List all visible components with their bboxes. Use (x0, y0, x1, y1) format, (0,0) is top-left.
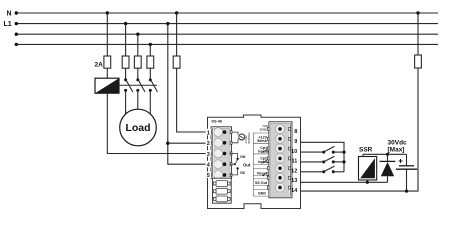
pushbutton glyph Cp2 (262, 159, 268, 163)
svg-text:N: N (7, 11, 12, 18)
wire K1 mechanical linkage (119, 84, 157, 86)
junction bus3 to fuse F3 (136, 33, 139, 36)
pin number 9 (294, 139, 297, 145)
terminal TB2 screw 10 (278, 147, 282, 151)
svg-text:[Max]: [Max] (388, 147, 405, 154)
junction battery to dc minus rail (405, 190, 408, 193)
svg-text:30Vdc: 30Vdc (388, 140, 408, 147)
terminal TB2 screw 8 (278, 127, 282, 131)
svg-text:no: no (240, 154, 246, 159)
ac supply wiring bracket (232, 132, 238, 143)
svg-text:12: 12 (291, 169, 297, 175)
battery B1 plus sign (399, 159, 403, 163)
relay label Out (243, 162, 251, 167)
svg-text:2A: 2A (95, 62, 104, 69)
terminal TB1 screw 2 (223, 141, 227, 145)
pin number 10 (291, 149, 297, 155)
pin number 12 (291, 169, 297, 175)
svg-text:nc: nc (240, 170, 246, 175)
pin number 1 (206, 129, 211, 137)
relay no contact dot (236, 158, 238, 160)
terminal block TB2 body (269, 122, 292, 198)
svg-text:14: 14 (291, 188, 298, 194)
SSR U2 (359, 157, 377, 181)
wire fuse F1 to coil K1 (106, 68, 108, 78)
svg-text:GND: GND (258, 192, 266, 196)
terminal block TB1 body (211, 127, 232, 180)
junction bus4 to fuse F4 (149, 43, 152, 46)
relay nc wiring to terminal 5 (230, 168, 237, 175)
terminal TB2 screw 11 (278, 157, 282, 161)
svg-text:1: 1 (207, 130, 210, 136)
pin number 4 (206, 161, 211, 169)
label cell SS Out (253, 179, 268, 185)
label cell Cp1 input (253, 144, 268, 155)
contact K1-1 (124, 78, 133, 92)
wire fuse F5 to terminal 1 (177, 68, 208, 132)
junction L1 to fuse F2 (124, 22, 127, 25)
junction N to fuse F5 (175, 11, 178, 14)
switch S3 on pin 12 (322, 166, 344, 173)
pin number 3 (206, 150, 211, 158)
diode D1 (380, 154, 396, 182)
fuse F2 (122, 56, 129, 68)
svg-text:5: 5 (207, 173, 210, 179)
switch S2 on pin 11 (322, 156, 344, 163)
node L1 label (4, 21, 12, 28)
switch S1 on pin 10 (322, 146, 344, 153)
pin number 8 (294, 129, 297, 135)
terminal TB1 pin tabs left (210, 131, 212, 177)
wire terminal 2 lead (168, 142, 208, 144)
terminal TB1 screw 5 (223, 173, 227, 177)
ac rating vertical text (244, 132, 251, 144)
wire N drop to fuse F5 (176, 13, 178, 56)
wire N bus line (15, 11, 438, 14)
terminal TB2 screw 14 (278, 186, 282, 190)
junction L1 to controller drop (166, 22, 169, 25)
svg-text:8: 8 (294, 129, 297, 135)
relay nc contact dot (236, 167, 238, 169)
svg-text:DS-48: DS-48 (212, 120, 222, 124)
junction N to fuse F1 (106, 11, 109, 14)
fuse F4 (147, 56, 154, 68)
junction N to fuse F6 (416, 11, 419, 14)
label cell GND (253, 190, 268, 197)
wire fuse F4 to contact K1-3 (149, 68, 151, 80)
svg-text:select: select (260, 127, 268, 131)
wire coil K1 bottom to terminal 3 (107, 93, 207, 153)
label SSR (359, 147, 373, 154)
terminal TB1 screw 3 (223, 152, 227, 156)
junction terminal 2 tap (166, 142, 169, 145)
wire L1 bus line (15, 22, 438, 25)
ac source symbol (239, 134, 245, 140)
pin number 5 (206, 172, 211, 180)
fuse F1 (104, 56, 111, 68)
terminal TB1 pin tabs right (230, 131, 232, 177)
wire contact K1-2 to load (137, 90, 139, 109)
wire phase bus line 3 (15, 33, 438, 36)
junction bus at pin 10 (342, 151, 345, 154)
wire contact K1-1 to load (125, 90, 127, 114)
svg-text:SS Out: SS Out (255, 181, 268, 185)
fuse F3 (134, 56, 141, 68)
junction SSR bottom (366, 181, 369, 184)
wire SSR top stub (362, 154, 364, 156)
relay label nc (240, 170, 246, 175)
label cell Cp2 input (253, 154, 268, 165)
pushbutton glyph Reset (262, 172, 268, 176)
svg-text:11: 11 (291, 159, 297, 165)
terminal TB2 pin tabs right (289, 127, 291, 189)
wire L1 drop to terminals 2 and 4 (168, 24, 208, 165)
relay contact wiring from terminal 3 (230, 154, 237, 158)
svg-text:50/60Hz: 50/60Hz (247, 132, 251, 144)
controller U1 DS-48 label (212, 120, 222, 124)
contact K1-3 (149, 78, 158, 92)
junction bus at pin 11 (342, 160, 345, 163)
wire pin 9 to pushbutton bus (301, 142, 345, 172)
svg-text:2: 2 (207, 141, 210, 147)
svg-text:13: 13 (291, 178, 297, 184)
wire pin 11 lead (301, 161, 323, 163)
wire contact K1-3 to load (149, 90, 151, 114)
terminal TB2 screw 13 (278, 176, 282, 180)
label strip side rails (253, 133, 268, 196)
relay label no (240, 154, 246, 159)
svg-text:50mA: 50mA (257, 139, 267, 143)
load M1 (120, 109, 157, 146)
controller U1 outline (208, 115, 301, 209)
svg-text:L1: L1 (4, 21, 12, 28)
label 30Vdc (388, 140, 408, 147)
wire pin 12 lead (301, 171, 323, 173)
wire pin 13 to dc bottom node (301, 181, 388, 183)
wire fuse F3 to contact K1-2 (137, 68, 139, 80)
label cell Reset (253, 168, 268, 176)
svg-text:Load: Load (125, 122, 150, 134)
wire SSR bottom stub (366, 180, 368, 182)
wire N drop to fuse F6 (417, 13, 419, 55)
wire L1 drop to fuse F2 (125, 24, 127, 56)
node N label (7, 11, 12, 18)
pin number 11 (291, 159, 297, 165)
label Max (388, 147, 405, 154)
contactor coil K1 (95, 78, 119, 93)
wire bus3 drop to fuse F3 (137, 34, 139, 56)
terminal TB1 screw 1 (223, 130, 227, 134)
pin number 13 (291, 178, 297, 184)
svg-text:SSR: SSR (359, 147, 373, 154)
wire N drop to fuse F1 (106, 13, 108, 56)
svg-text:3: 3 (207, 152, 210, 158)
label non select (260, 124, 269, 131)
pushbutton glyph Cp1 (262, 149, 268, 153)
fuse F6 (415, 55, 422, 68)
svg-text:Out: Out (243, 162, 251, 167)
wire fuse F6 to dc minus rail (301, 68, 419, 191)
relay common wiring from terminal 4 (230, 163, 235, 165)
label cell +12V 50mA (253, 133, 268, 144)
pin number 2 (206, 139, 211, 147)
pin number 14 (291, 188, 298, 194)
junction diode cathode (386, 153, 389, 156)
fuse F5 (173, 56, 180, 68)
contact K1-2 (136, 78, 145, 92)
terminal TB1 screw 4 (223, 162, 227, 166)
wire phase bus line 4 (15, 43, 438, 46)
svg-text:10: 10 (291, 149, 297, 155)
wire fuse F2 to contact K1-1 (125, 68, 127, 80)
terminal TB2 screw 12 (278, 167, 282, 171)
fuse F1 2A label (95, 62, 104, 69)
battery B1 (396, 154, 417, 191)
wire dc plus node line (363, 153, 407, 155)
relay blade (234, 158, 239, 166)
svg-text:9: 9 (294, 139, 297, 145)
connector slots below TB1 (213, 178, 232, 203)
wire bus4 drop to fuse F4 (149, 44, 151, 56)
terminal TB2 pin tabs left (267, 127, 269, 189)
wire pin 10 lead (301, 151, 323, 153)
terminal TB2 screw 9 (278, 137, 282, 141)
